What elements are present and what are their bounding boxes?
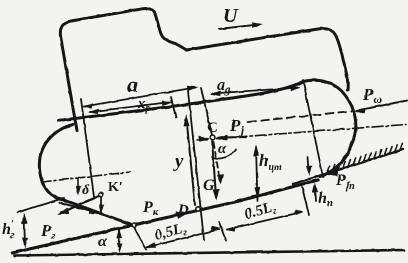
- arrowhead U: [252, 22, 264, 28]
- svg-text:D: D: [177, 202, 189, 218]
- svg-text:y: y: [173, 151, 184, 172]
- arrowhead alpha bottom down: [117, 243, 123, 253]
- extension line left through hitch: [81, 99, 94, 197]
- hull left edge: [61, 36, 78, 131]
- arrowhead G: [213, 189, 220, 201]
- arrowhead ag right: [291, 86, 302, 92]
- ground hatch ticks: [327, 143, 402, 173]
- D point: [196, 207, 200, 211]
- dimension xp line: [90, 102, 170, 112]
- arrowhead xp left: [88, 109, 99, 114]
- hull front edge joining arc: [347, 74, 348, 90]
- arrowhead 0.5Lr left-mid: [211, 226, 221, 232]
- svg-text:α: α: [98, 233, 108, 250]
- arrowhead perpendicular dashed: [217, 174, 224, 185]
- hull top line: [58, 82, 303, 121]
- arrowhead dimension a left: [82, 103, 93, 108]
- extension line rear contact: [303, 80, 323, 177]
- track lower slant to ground: [64, 200, 134, 226]
- arrowhead hn up: [312, 183, 318, 193]
- dash-dot axis through C to right: [197, 125, 406, 141]
- arrowhead Pj: [216, 135, 228, 141]
- C point: [210, 135, 215, 140]
- arrowhead 0.5Lr far right: [294, 209, 304, 215]
- arrowhead ag left: [210, 91, 221, 97]
- G force line: [212, 139, 216, 197]
- svg-text:a: a: [127, 72, 138, 97]
- arrowhead delta: [76, 186, 81, 196]
- 0.5Lr left extension tick: [134, 227, 146, 250]
- arrowhead Pr: [57, 208, 70, 216]
- svg-text:U: U: [223, 5, 239, 27]
- arrowhead alpha bottom up: [117, 228, 123, 238]
- arrowhead hn down: [306, 166, 312, 176]
- arrowhead 0.5Lr mid-right: [226, 226, 236, 232]
- arrowhead K' vertical: [99, 205, 105, 215]
- arrowhead dimension a right: [187, 86, 198, 92]
- svg-text:α: α: [218, 141, 227, 157]
- Pr component arrow line: [60, 203, 97, 214]
- U velocity arrow: [219, 25, 258, 30]
- arrowhead xp right: [162, 101, 173, 106]
- dimension ag line: [212, 88, 299, 94]
- dashed line of action to Pw: [248, 111, 352, 122]
- arrowhead hct bottom: [254, 187, 260, 198]
- hn upper arrow shaft: [308, 157, 309, 170]
- arrowhead Pfn: [324, 168, 339, 177]
- Pk force line: [134, 214, 183, 225]
- delta small arrow shaft: [77, 179, 79, 192]
- hull rear rounded end: [303, 80, 356, 176]
- Pfn force line: [333, 161, 367, 172]
- 0.5Lr dimension line right segment: [227, 212, 302, 230]
- arrowhead hct top: [253, 145, 259, 157]
- 0.5Lr middle tick: [219, 222, 226, 241]
- alpha arc near C: [212, 150, 236, 158]
- arrowhead hr' top: [22, 213, 28, 224]
- svg-text:C: C: [207, 120, 218, 136]
- Pj force line: [219, 136, 246, 139]
- arrowhead hr' bottom: [22, 238, 28, 249]
- arrowhead Pk: [176, 212, 190, 219]
- K' point: [99, 192, 103, 196]
- extension line through D: [188, 91, 204, 240]
- Pw force line: [357, 101, 407, 111]
- hull left rounded end: [39, 125, 73, 201]
- hct dimension line: [256, 147, 258, 201]
- arrowhead into C from left: [199, 136, 210, 142]
- hr' top reference line: [17, 198, 64, 213]
- base horizontal line: [14, 250, 404, 256]
- 0.5Lr dimension line left segment: [146, 230, 219, 248]
- hatched ground surface line: [293, 150, 403, 185]
- svg-text:K′: K′: [108, 180, 123, 195]
- Pr force line: [61, 195, 101, 213]
- hull body cab outline: [60, 8, 346, 74]
- arrowhead Pr component: [89, 208, 101, 215]
- dash-dot axis through hitch: [42, 172, 130, 182]
- dimension a line: [84, 88, 195, 107]
- arrowhead y axis: [184, 115, 190, 127]
- ground incline line: [12, 180, 318, 253]
- junction point on ground: [132, 224, 136, 228]
- extension line through C upper: [201, 88, 212, 135]
- arrowhead Pw: [354, 108, 366, 114]
- svg-text:h′г: h′г: [2, 218, 14, 241]
- alpha bottom dimension arrow shaft: [118, 229, 121, 250]
- arrowhead 0.5Lr far left: [144, 242, 156, 248]
- vertical drop from K': [100, 196, 102, 211]
- svg-text:G: G: [203, 177, 215, 194]
- 0.5Lr rear extension tick: [302, 187, 309, 215]
- hr' dimension line: [24, 215, 25, 246]
- svg-text:δ: δ: [82, 183, 89, 198]
- hn lower arrow shaft: [314, 189, 317, 201]
- extension tick xp: [171, 97, 176, 118]
- perpendicular dashed from C: [214, 142, 221, 181]
- y axis line: [187, 119, 196, 205]
